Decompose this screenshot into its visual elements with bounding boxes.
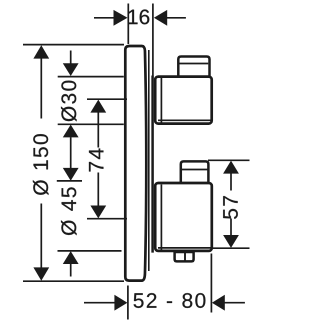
- label 57: [223, 196, 238, 219]
- dim 52-80: right arrow: [212, 295, 225, 311]
- dim 74: upper wire: [97, 112, 99, 147]
- dim 57: lower wire: [230, 219, 232, 236]
- dim 74: top extension line: [87, 98, 127, 100]
- dim Ø150: top extension line: [23, 44, 124, 46]
- dim 16: left tail wire: [94, 17, 114, 19]
- dim Ø30: upper tail wire: [70, 51, 72, 64]
- dim Ø150: bottom extension line: [23, 280, 124, 282]
- dim 52-80: right tail wire: [225, 302, 245, 304]
- handle base sleeve edge: [151, 76, 154, 253]
- plate front face contour line: [148, 50, 150, 271]
- label 16: [128, 9, 149, 24]
- dim Ø45: bottom arrow (up): [63, 251, 79, 264]
- dim Ø30: top arrow (down): [63, 63, 79, 76]
- label Ø30: [61, 81, 77, 122]
- dim 16: left extension line: [127, 4, 129, 45]
- dim 16: right arrow: [154, 10, 167, 26]
- dim 74: lower wire: [97, 173, 99, 207]
- dim 74: bottom extension line: [87, 218, 127, 220]
- bottom clip tab: [175, 252, 194, 261]
- dim 74: top arrow (up): [90, 100, 106, 113]
- dim Ø150: bottom arrow: [33, 267, 49, 280]
- label Ø 150: [33, 134, 49, 195]
- dim Ø30: top extension line: [58, 76, 124, 78]
- dim 52-80: right extension line: [210, 254, 212, 313]
- dim Ø45: top arrow (down): [63, 168, 79, 181]
- dim Ø45: top extension stub: [57, 180, 82, 182]
- dim Ø30: bottom arrow (up): [63, 125, 79, 138]
- top handle tab inner line: [180, 63, 209, 65]
- dim 16: left arrow: [114, 10, 128, 26]
- dim 74: bottom arrow (down): [90, 206, 106, 219]
- dim Ø30/Ø45 shared wire: [70, 137, 72, 168]
- bottom clip tab divider: [184, 253, 186, 262]
- dim Ø45: bottom extension line: [58, 250, 122, 252]
- dim 57: bottom extension line: [211, 247, 250, 249]
- escutcheon plate (side view, Ø150): [125, 46, 146, 281]
- dim 57: upper wire: [230, 173, 232, 190]
- dim 52-80: left arrow: [114, 295, 127, 311]
- dim Ø150: lower wire: [40, 204, 42, 269]
- label 52 - 80: [134, 293, 206, 308]
- dim 52-80: left extension line: [127, 286, 129, 320]
- dim Ø45: lower tail wire: [70, 264, 72, 277]
- label Ø 45: [61, 187, 77, 235]
- dim 16: right tail wire: [167, 17, 186, 19]
- dim Ø30: bottom extension line: [58, 123, 124, 125]
- top handle tab: [178, 57, 209, 78]
- bottom handle tab: [181, 161, 209, 183]
- bottom handle collar line: [160, 185, 162, 250]
- dim Ø150: top arrow: [33, 45, 49, 58]
- bottom handle body (Ø45): [155, 183, 212, 251]
- dim 52-80: left tail wire: [84, 302, 115, 304]
- top handle body (Ø30 grip): [155, 77, 212, 124]
- label 74: [89, 149, 103, 172]
- top handle inner bottom line: [158, 119, 211, 121]
- dim 16: right extension line: [152, 4, 154, 76]
- dim 57: bottom arrow (down): [223, 235, 239, 248]
- dim Ø150: upper wire: [40, 58, 42, 119]
- bottom handle inner bottom line: [158, 247, 211, 249]
- dim 57: top arrow (up): [223, 161, 239, 174]
- bottom handle tab inner line: [182, 169, 208, 171]
- dim 57: top extension line: [208, 159, 250, 161]
- top handle collar line: [160, 78, 162, 123]
